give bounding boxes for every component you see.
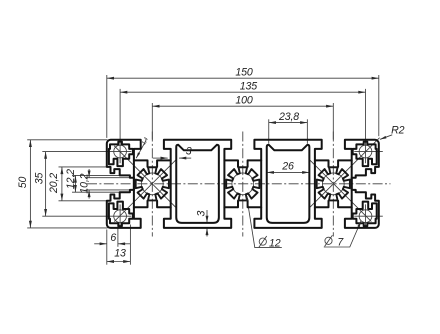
svg-text:20,2: 20,2 — [48, 173, 60, 194]
svg-text:12,2: 12,2 — [65, 169, 77, 189]
svg-text:6: 6 — [110, 232, 116, 244]
svg-text:13: 13 — [114, 248, 126, 260]
svg-text:10,2: 10,2 — [79, 173, 91, 193]
svg-text:50: 50 — [17, 177, 29, 189]
svg-text:R2: R2 — [391, 124, 405, 136]
svg-text:3: 3 — [186, 145, 192, 157]
svg-text:3: 3 — [196, 210, 208, 216]
svg-text:100: 100 — [235, 94, 252, 106]
svg-text:35: 35 — [34, 173, 46, 185]
svg-text:23,8: 23,8 — [278, 111, 299, 123]
svg-text:12: 12 — [269, 237, 281, 249]
svg-text:26: 26 — [281, 161, 294, 173]
svg-text:150: 150 — [235, 66, 252, 78]
svg-text:135: 135 — [240, 80, 257, 92]
